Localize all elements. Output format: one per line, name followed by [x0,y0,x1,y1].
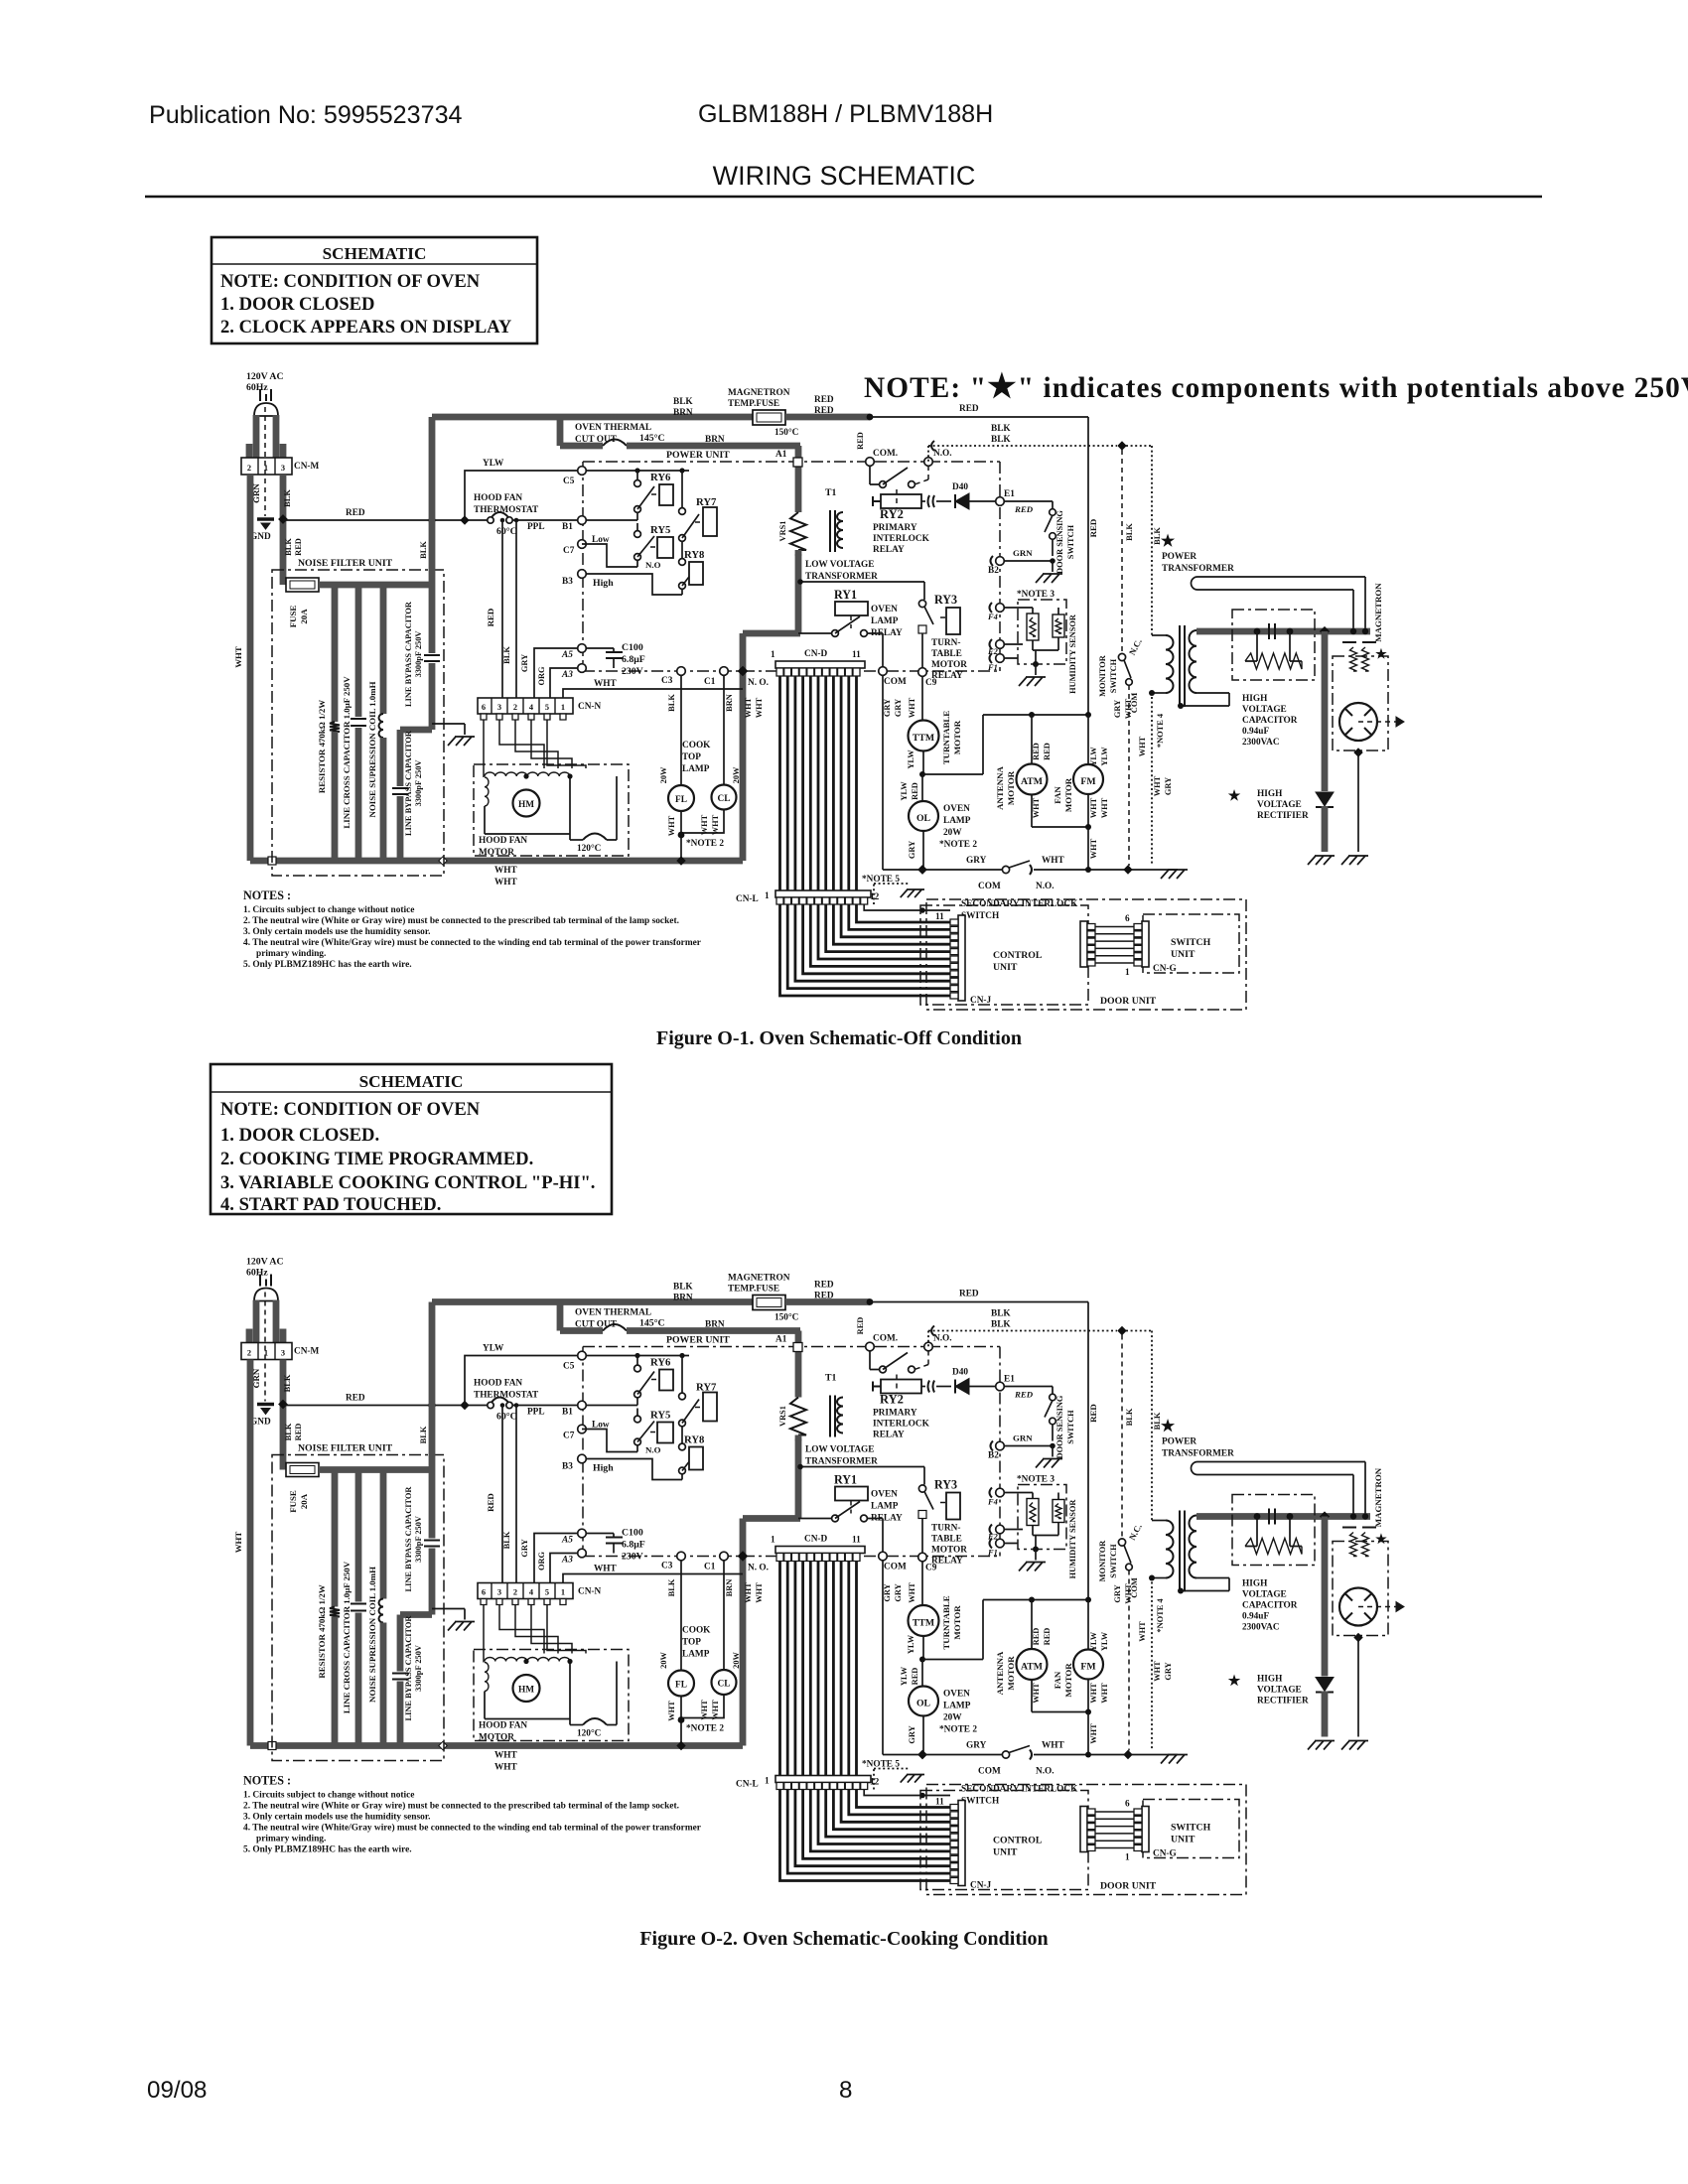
svg-text:★: ★ [1228,788,1241,804]
svg-text:1: 1 [771,650,775,660]
svg-text:WHT: WHT [233,646,243,668]
svg-text:GRY: GRY [1164,777,1173,795]
condition box for figure O-2 [211,1064,612,1214]
svg-text:FAN: FAN [1053,786,1062,804]
svg-text:MOTOR: MOTOR [1006,770,1016,805]
svg-text:COM: COM [884,677,907,687]
schematic figure O-2 (cooking condition, duplicate of O-1) [233,1257,1404,1895]
svg-text:Figure O-2. Oven Schematic-Coo: Figure O-2. Oven Schematic-Cooking Condi… [639,1928,1048,1950]
hood fan thermal cutout 120C [570,839,583,841]
oven lamp OL 20W *NOTE 2 [921,774,923,801]
svg-text:WHT: WHT [700,814,709,835]
svg-text:WHT: WHT [667,815,676,836]
svg-text:BLK: BLK [673,397,693,407]
svg-text:RED: RED [814,406,834,416]
svg-text:CONTROL: CONTROL [993,950,1043,961]
svg-text:20W: 20W [732,766,741,783]
secondary interlock switch [918,866,926,874]
condition box for figure O-1 [211,237,537,343]
svg-text:UNIT: UNIT [993,962,1018,973]
svg-text:RED: RED [856,432,865,450]
svg-text:BLK: BLK [283,489,292,507]
RED wire to hood fan thermostat [283,519,491,521]
svg-text:0.94uF: 0.94uF [1242,727,1269,737]
svg-text:VRS1: VRS1 [778,521,787,542]
svg-text:1: 1 [561,703,565,712]
svg-text:HIGH: HIGH [1242,694,1268,704]
magnetron [1333,656,1388,751]
thick return wire to bottom rail [743,630,800,637]
wire TTM to junction [922,751,924,774]
svg-text:MOTOR: MOTOR [931,660,967,670]
svg-text:B2: B2 [988,566,999,576]
svg-text:C100: C100 [622,642,643,653]
fan motor FM [1087,715,1089,764]
svg-text:8: 8 [839,2077,852,2104]
svg-text:WHT: WHT [494,866,518,876]
svg-text:NOTES :: NOTES : [243,888,291,902]
svg-text:CAPACITOR: CAPACITOR [1242,716,1298,726]
svg-text:WHT: WHT [1124,698,1133,719]
svg-text:C9: C9 [925,678,937,688]
branch to thermal cutout [557,417,564,446]
svg-text:WHT: WHT [1153,775,1162,796]
svg-text:3. VARIABLE COOKING CONTROL "P: 3. VARIABLE COOKING CONTROL "P-HI". [220,1172,595,1193]
svg-text:60°C: 60°C [496,526,517,537]
svg-text:N.O.: N.O. [933,449,952,459]
svg-text:MAGNETRON: MAGNETRON [728,388,790,398]
svg-text:WHT: WHT [1089,797,1098,818]
svg-text:SECONDARY INTERLOCK: SECONDARY INTERLOCK [961,899,1078,909]
svg-text:RELAY: RELAY [873,545,905,555]
cook top lamp FL 20W [668,785,694,811]
svg-text:SWITCH: SWITCH [961,911,1000,921]
high voltage capacitor box [1232,610,1315,680]
svg-text:DOOR UNIT: DOOR UNIT [1100,996,1157,1007]
wire C1 to lamp CL [723,676,725,785]
svg-text:5. Only PLBMZ189HC has the ear: 5. Only PLBMZ189HC has the earth wire. [243,960,412,970]
terminal C7 Low [578,540,587,549]
svg-text:FM: FM [1080,776,1095,787]
terminal B2 GRN [996,557,1005,566]
wire T1 to RY1 contact [795,554,802,633]
terminal B3 High [578,570,587,579]
terminal C9 [918,668,927,677]
svg-text:SWITCH: SWITCH [1171,937,1211,948]
AC plug 120V supply [260,389,271,401]
svg-text:YLW: YLW [483,459,504,469]
door sensing switch [1050,509,1056,516]
lamp return wires WHT [680,811,682,861]
svg-text:6: 6 [482,703,486,712]
connector CN-N [478,698,573,714]
wire fuse to RED junction [785,414,870,421]
svg-text:RY6: RY6 [650,472,671,483]
svg-text:N.C.: N.C. [1127,637,1144,657]
svg-text:C5: C5 [563,477,575,486]
svg-text:MOTOR: MOTOR [479,848,514,858]
svg-text:Figure O-1. Oven Schematic-Off: Figure O-1. Oven Schematic-Off Condition [656,1027,1022,1049]
svg-text:DOOR SENSING: DOOR SENSING [1055,510,1064,574]
svg-text:230V: 230V [622,666,643,677]
svg-text:MOTOR: MOTOR [952,720,962,754]
svg-text:WHT: WHT [1100,797,1109,818]
filament winding loop [1192,577,1366,590]
svg-text:LINE BYPASS CAPACITOR: LINE BYPASS CAPACITOR [404,730,413,836]
svg-text:VOLTAGE: VOLTAGE [1257,800,1302,810]
svg-text:RY3: RY3 [934,593,957,607]
ground at magnetron [1341,856,1368,865]
line cross capacitor 1.0uF 250V [355,588,362,717]
svg-text:CL: CL [718,794,731,804]
BLK wire to power transformer [1126,445,1152,447]
svg-text:A3: A3 [561,670,573,680]
svg-text:WHT: WHT [1138,736,1147,756]
svg-text:C3: C3 [661,676,673,686]
svg-text:WHT: WHT [711,814,720,835]
svg-text:GLBM188H / PLBMV188H: GLBM188H / PLBMV188H [698,100,993,128]
svg-text:GRY: GRY [883,699,892,717]
svg-text:LAMP: LAMP [871,616,899,626]
hood fan motor HM [485,772,570,776]
noise filter unit boundary [272,570,444,876]
svg-text:NOISE SUPRESSION COIL 1.0mH: NOISE SUPRESSION COIL 1.0mH [367,681,377,817]
svg-text:1: 1 [1125,968,1130,978]
svg-text:ATM: ATM [1021,776,1043,787]
svg-text:09/08: 09/08 [147,2077,208,2104]
GRY wire A5 to CN-N [534,648,578,698]
svg-text:RY1: RY1 [834,588,857,602]
svg-text:BRN: BRN [673,408,693,418]
terminal N.O. on power unit top [924,458,933,467]
svg-text:F4: F4 [987,613,998,621]
title rule [145,196,1542,198]
svg-text:C7: C7 [563,546,575,556]
terminal F2 [996,640,1005,649]
WHT neutral wire left rail [247,475,254,861]
svg-text:NOTE: CONDITION OF OVEN: NOTE: CONDITION OF OVEN [220,271,481,292]
schematic figure O-1 (off condition) [233,371,1404,1010]
line bypass capacitor upper 3300pF 250V [429,417,436,653]
svg-text:MOTOR: MOTOR [1063,777,1073,812]
svg-text:LOW VOLTAGE: LOW VOLTAGE [805,560,874,570]
svg-text:BRN: BRN [725,694,734,712]
svg-text:BLK: BLK [502,646,511,664]
terminal COM on power unit bottom [879,667,888,676]
svg-text:120°C: 120°C [577,843,601,854]
power transformer core [1180,625,1185,707]
ground at door sensing switch [1052,561,1054,572]
svg-text:RED: RED [1088,519,1098,538]
svg-text:OVEN: OVEN [871,605,898,614]
capacitor C100 6.8uF [587,648,614,651]
svg-text:A1: A1 [775,450,787,460]
door unit boundary [926,899,1246,1010]
svg-text:CN-D: CN-D [804,649,828,659]
svg-text:3300pF 250V: 3300pF 250V [414,631,423,678]
svg-text:HOOD FAN: HOOD FAN [474,493,522,503]
svg-text:2. COOKING TIME PROGRAMMED.: 2. COOKING TIME PROGRAMMED. [220,1149,533,1169]
GRN wire to ground [264,407,266,516]
svg-text:YLW: YLW [1089,747,1098,766]
turntable motor TTM [909,721,939,751]
svg-text:POWER: POWER [1162,552,1196,562]
svg-text:WHT: WHT [1032,797,1041,818]
svg-text:RECTIFIER: RECTIFIER [1257,811,1309,821]
svg-text:1: 1 [765,891,770,901]
svg-text:20A: 20A [299,609,309,624]
line bypass capacitor lower 3300pF 250V [400,727,432,734]
noise suppression coil 1.0mH [380,588,387,714]
svg-text:WHT: WHT [755,697,764,718]
svg-text:MAGNETRON: MAGNETRON [1373,583,1383,642]
svg-text:RED: RED [1014,504,1034,514]
svg-text:NOTE: "★" indicates components: NOTE: "★" indicates components with pote… [864,369,1688,405]
svg-text:LAMP: LAMP [943,816,971,826]
svg-text:1. DOOR CLOSED: 1. DOOR CLOSED [220,294,375,315]
svg-text:E1: E1 [1004,489,1015,499]
magnetron temp fuse [753,410,785,425]
WHT wire CN-N pin1 [563,689,743,698]
svg-text:N.O.: N.O. [1036,882,1055,891]
svg-text:RED: RED [959,404,979,414]
svg-text:T1: T1 [825,487,837,498]
svg-text:ANTENNA: ANTENNA [995,766,1005,810]
svg-text:RED: RED [294,538,303,556]
thermistor pair in humidity sensor [1005,608,1058,664]
svg-text:3: 3 [497,703,501,712]
ribbon wires CN-D to CN-L [780,676,857,890]
svg-text:TOP: TOP [682,752,701,762]
svg-text:CN-L: CN-L [736,894,759,904]
svg-text:5: 5 [545,703,549,712]
svg-text:2. CLOCK APPEARS ON DISPLAY: 2. CLOCK APPEARS ON DISPLAY [220,317,512,338]
BRN wire down to transformer T1 [795,446,802,512]
wire C3 to lamp FL [680,676,682,785]
svg-text:C1: C1 [704,677,716,687]
svg-text:FL: FL [675,795,687,805]
svg-text:ORG: ORG [537,666,546,686]
wire CN-N pin6 to motor [483,720,485,777]
magnetron cathode return [1354,749,1362,756]
stepped wires CN-N to hood fan motor [499,720,586,768]
svg-text:GRY: GRY [966,856,987,866]
svg-text:WHT: WHT [1089,838,1098,859]
svg-text:2: 2 [513,703,517,712]
svg-text:WHT: WHT [744,697,753,718]
svg-text:PRIMARY: PRIMARY [873,523,917,533]
cook top lamp CL 20W [712,785,737,810]
ground at power transformer [1161,870,1188,879]
svg-text:B1: B1 [562,522,573,532]
BLK live wire from CN-M [280,475,287,585]
svg-text:GRN: GRN [1013,548,1033,558]
wire B3 to RY8 [587,574,682,595]
svg-text:120V AC: 120V AC [246,371,284,382]
svg-text:OVEN THERMAL: OVEN THERMAL [575,423,651,433]
svg-text:TTM: TTM [913,733,934,744]
svg-text:CN-N: CN-N [578,702,602,712]
svg-text:BLK: BLK [991,424,1011,434]
svg-text:YLW: YLW [1100,747,1109,766]
ground at noise filter [448,737,475,746]
coupling and diode D40 [921,500,925,502]
svg-text:GRY: GRY [1113,700,1122,718]
svg-text:TABLE: TABLE [931,649,962,659]
power unit boundary [583,461,870,463]
svg-text:GRY: GRY [908,841,916,859]
svg-text:High: High [593,578,614,589]
ground at HV capacitor [1308,856,1335,865]
svg-text:N. O.: N. O. [748,678,769,688]
svg-text:6: 6 [1125,914,1130,924]
svg-text:RED: RED [911,782,919,800]
svg-text:YLW: YLW [907,750,915,769]
svg-text:★: ★ [1375,646,1387,661]
svg-text:D40: D40 [952,482,968,492]
svg-text:COM: COM [978,882,1001,891]
wire YLW branch [465,471,577,520]
svg-text:*NOTE 4: *NOTE 4 [1156,713,1165,748]
svg-text:RY8: RY8 [684,549,704,561]
svg-text:A5: A5 [561,650,573,660]
terminal A5 [578,644,587,653]
svg-text:LINE BYPASS CAPACITOR: LINE BYPASS CAPACITOR [404,601,413,707]
svg-text:4. The neutral wire (White/Gra: 4. The neutral wire (White/Gray wire) mu… [243,937,701,948]
svg-text:Publication No: 5995523734: Publication No: 5995523734 [149,101,463,129]
svg-text:GRY: GRY [894,699,903,717]
svg-text:60Hz: 60Hz [246,382,268,393]
resistor 470k 1/2W [332,588,339,722]
svg-text:*NOTE 2: *NOTE 2 [686,839,724,849]
switch unit boundary [1143,914,1239,973]
control unit boundary [920,905,1088,1005]
high voltage rectifier diode [1322,631,1329,791]
ribbon wires CN-L to CN-J [780,904,951,996]
svg-text:MONITOR: MONITOR [1098,654,1107,697]
svg-text:BLK: BLK [667,694,676,712]
power transformer secondary winding [1190,630,1197,693]
svg-text:RED: RED [1043,743,1052,760]
connector CN-M [241,458,292,475]
NOTE 4 neutral wire [1151,697,1153,866]
RED wire top right [870,416,1088,418]
node junction RED tap [279,515,287,523]
svg-text:SCHEMATIC: SCHEMATIC [359,1072,464,1091]
BLK wire down to CN-N pin2 [514,518,519,523]
svg-text:VOLTAGE: VOLTAGE [1242,705,1287,715]
svg-text:UNIT: UNIT [1171,949,1196,960]
terminal E1 [996,497,1005,506]
svg-text:HOOD FAN: HOOD FAN [479,836,527,846]
svg-text:INTERLOCK: INTERLOCK [873,534,930,544]
svg-text:TRANSFORMER: TRANSFORMER [805,572,878,582]
transformer secondary wire to RY3 [800,581,924,583]
svg-text:GRY: GRY [520,654,529,672]
svg-text:BLK: BLK [991,435,1011,445]
svg-text:20W: 20W [943,828,962,838]
svg-text:B3: B3 [562,577,573,587]
svg-text:HUMIDITY SENSOR: HUMIDITY SENSOR [1068,614,1077,694]
earth stub from filter [432,724,465,735]
ground GND at plug [257,517,274,520]
svg-text:OVEN: OVEN [943,804,970,814]
terminal C5 [578,467,587,476]
svg-text:1. DOOR CLOSED.: 1. DOOR CLOSED. [220,1125,379,1146]
noise filter top feed wire [319,582,432,589]
svg-text:WHT: WHT [1042,856,1065,866]
svg-text:F1: F1 [987,663,998,672]
svg-text:WIRING SCHEMATIC: WIRING SCHEMATIC [713,161,976,191]
svg-text:TURN-: TURN- [931,638,960,648]
svg-text:HM: HM [518,800,534,810]
svg-text:2. The neutral wire (White or: 2. The neutral wire (White or Gray wire)… [243,915,679,926]
svg-text:WHT: WHT [594,679,618,689]
terminal F1 [996,654,1005,663]
svg-text:BLK: BLK [284,538,293,556]
svg-text:3. Only certain models use the: 3. Only certain models use the humidity … [243,927,430,937]
svg-text:NOTE: CONDITION OF OVEN: NOTE: CONDITION OF OVEN [220,1099,481,1120]
terminal B1 [578,516,587,525]
GRY wire COM down to interlock [882,676,884,870]
svg-text:CN-G: CN-G [1153,964,1177,974]
svg-text:11: 11 [852,650,861,660]
svg-text:TURNTABLE: TURNTABLE [941,711,951,764]
svg-text:SWITCH: SWITCH [1066,524,1075,559]
wire E1 to door sensing switch [1005,501,1053,509]
svg-text:COM.: COM. [873,449,898,459]
svg-text:COOK: COOK [682,741,711,751]
RED wire down right side [1087,417,1089,715]
svg-text:LAMP: LAMP [682,764,710,774]
svg-text:PPL: PPL [527,522,545,532]
svg-text:LINE CROSS CAPACITOR 1.0μF 250: LINE CROSS CAPACITOR 1.0μF 250V [342,676,352,829]
svg-text:TRANSFORMER: TRANSFORMER [1162,564,1234,574]
svg-text:*NOTE 3: *NOTE 3 [1017,590,1055,600]
wire C7 to RY5 [582,544,637,567]
ground at humidity sensor [1035,664,1037,675]
hood fan thermostat 60C [488,517,493,523]
wire C5 to relay contacts [587,470,689,472]
low voltage transformer T1 with varistor VRS1 [790,512,806,550]
svg-text:145°C: 145°C [639,433,665,444]
svg-text:THERMOSTAT: THERMOSTAT [474,505,539,515]
svg-text:*NOTE 2: *NOTE 2 [939,840,977,850]
RED wire down to CN-N pin3 [500,518,505,523]
oven thermal cutout 145C [560,443,603,450]
svg-text:BLK: BLK [1125,523,1134,541]
fuse 20A [286,578,319,592]
svg-text:150°C: 150°C [774,427,798,438]
svg-text:4. START PAD TOUCHED.: 4. START PAD TOUCHED. [220,1194,441,1215]
terminal COM on power unit top [866,458,875,467]
svg-text:YLW: YLW [900,781,909,801]
svg-text:3300pF 250V: 3300pF 250V [414,760,423,807]
svg-text:*NOTE 5: *NOTE 5 [862,875,900,885]
branch wire to motors [922,715,1088,774]
monitor switch [927,446,929,462]
svg-text:2300VAC: 2300VAC [1242,738,1280,748]
high voltage wire [1196,628,1370,635]
svg-text:20W: 20W [659,766,668,783]
svg-text:RED: RED [814,395,834,405]
svg-text:11: 11 [935,912,944,922]
svg-text:RED: RED [1032,743,1041,760]
svg-text:CN-M: CN-M [294,462,320,472]
svg-text:3: 3 [281,464,285,473]
svg-text:2: 2 [247,464,251,473]
svg-text:RY5: RY5 [650,524,670,536]
